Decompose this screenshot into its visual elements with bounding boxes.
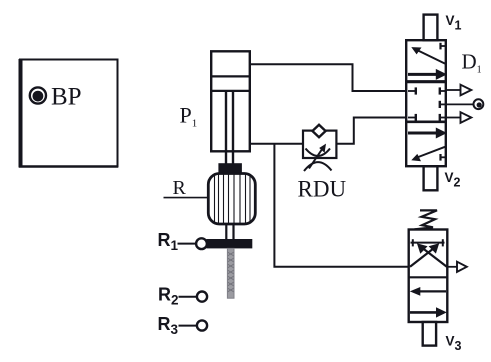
wire cylinder bottom to RDU (250, 143, 303, 145)
sensor R2 (179, 292, 208, 302)
piston (211, 76, 250, 91)
D1 top box: diagonal flow arrow (411, 47, 445, 64)
roller drum R (208, 174, 255, 225)
wire cylinder top to valve D1 port (251, 64, 407, 91)
svg-text:R: R (173, 177, 187, 199)
valve D1 body (406, 40, 446, 166)
D1 bottom box: thick flow arrow (408, 128, 447, 139)
label R with leader line (164, 177, 209, 199)
D1 top box: thick flow arrow (408, 69, 447, 80)
D1 middle box: blocked ports left (408, 87, 416, 121)
D1 top box: blocked port T (441, 43, 446, 50)
D1 bottom box: blocked port T (441, 154, 446, 161)
cylinder P1 body (211, 51, 250, 151)
gauge port middle right (446, 99, 483, 109)
V3 top box: crossed flow arrows (410, 243, 447, 266)
throttle arcs (306, 149, 331, 157)
flow control valve RDU (303, 125, 336, 171)
pilot port V2 stub (424, 166, 438, 190)
D1 middle box: blocked ports right (440, 87, 445, 121)
pushbutton symbol (30, 87, 46, 103)
sensor R3 (179, 320, 208, 330)
svg-text:RDU: RDU (298, 176, 347, 201)
svg-text:BP: BP (51, 84, 82, 111)
check valve diamond (312, 125, 325, 137)
pilot port V1 stub (424, 15, 438, 41)
valve V3 spring (415, 210, 438, 229)
D1 bottom box: diagonal flow arrow (411, 147, 445, 161)
cam bar at R1 (207, 239, 253, 248)
V3 top box: header line with end bars (411, 239, 445, 246)
wire RDU output up to valve D1 (337, 118, 407, 144)
V3 exhaust right (448, 262, 467, 272)
wire junction down to valve V3 (274, 144, 408, 267)
V3 bottom port stub (423, 322, 436, 346)
sensor roller R1 (178, 238, 207, 249)
V3 bottom box: right flow arrow (410, 307, 447, 317)
V3 bottom box: left flow arrow (410, 287, 446, 296)
exhaust port top right (446, 85, 471, 96)
valve V3 body (409, 230, 448, 323)
rod below drum (226, 224, 233, 240)
adjust arrow (309, 149, 323, 169)
piston rod (226, 91, 233, 164)
rod end block (218, 163, 242, 173)
lower rod (gray) (227, 248, 234, 298)
pushbutton box BP (19, 59, 118, 168)
exhaust port bottom right (446, 112, 471, 123)
